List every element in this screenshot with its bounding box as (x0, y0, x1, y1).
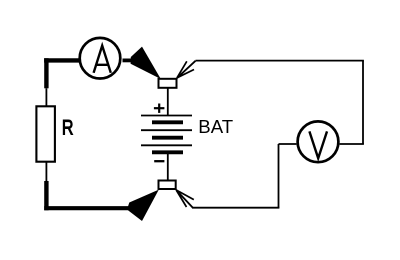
wire: left lower thick vertical (44, 181, 48, 210)
wire: vertical down from voltmeter left lead (278, 144, 280, 208)
battery plate short (-) (152, 120, 183, 124)
wire: voltmeter right lead (340, 143, 364, 145)
battery plate long (+) middle (141, 129, 192, 131)
wire: thin lead into resistor top (45, 88, 47, 106)
wire: diagonal lead from top clip (177, 61, 196, 78)
ammeter A (circle) (80, 38, 121, 79)
battery plate short (-) (152, 136, 183, 140)
battery positive terminal block (159, 79, 177, 88)
svg-text:R: R (62, 116, 74, 139)
clip strain-relief strands (top) (177, 61, 194, 78)
polarity - sign (154, 160, 164, 162)
alligator clip jaw (top, on positive terminal) (131, 47, 161, 79)
wire: diagonal lead into bottom clip corner (176, 190, 193, 208)
voltmeter V (circle) (298, 121, 339, 162)
wire: stub from ammeter to top clip (123, 59, 134, 63)
polarity + sign (154, 104, 165, 113)
clip strain-relief strands (bottom) (176, 190, 194, 207)
wire: top horizontal to right side (196, 60, 364, 62)
resistor R (36, 106, 55, 161)
wire: battery top lead (167, 88, 169, 116)
svg-text:BAT: BAT (198, 117, 233, 137)
wire: top-left thick horizontal (node between ammeter and left branch) (44, 58, 80, 62)
battery plate short (-) bottom (152, 150, 183, 154)
wire: right vertical down to voltmeter (362, 61, 364, 144)
battery BAT plates (141, 116, 192, 153)
battery plate long (+) lower (141, 144, 192, 146)
wire: battery bottom lead (167, 154, 169, 181)
battery negative terminal block (159, 181, 176, 190)
wire: bottom horizontal back to bottom clip (193, 207, 280, 209)
battery plate long (+) top (141, 115, 192, 117)
wire: bottom thick horizontal to clip (44, 206, 129, 210)
wire: thin lead from resistor bottom (45, 162, 47, 181)
wire: left upper thick vertical (44, 58, 48, 88)
ammeter letter A (94, 46, 111, 73)
wire: voltmeter left lead (279, 143, 297, 145)
alligator clip jaw (bottom, on negative terminal) (127, 190, 159, 221)
voltmeter letter V (309, 131, 327, 158)
